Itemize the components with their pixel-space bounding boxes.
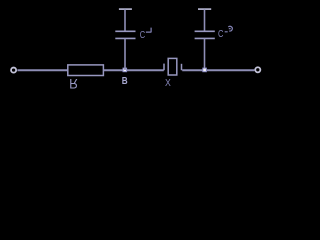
svg-text:C: C xyxy=(140,30,146,41)
svg-text:R: R xyxy=(69,75,78,91)
label C1 xyxy=(140,30,146,41)
wire xyxy=(104,69,164,71)
wire xyxy=(198,8,211,10)
node B xyxy=(123,68,128,73)
wire xyxy=(182,69,204,71)
terminal T2 xyxy=(255,67,260,72)
terminal T1 xyxy=(11,68,16,73)
svg-text:C: C xyxy=(218,29,224,40)
node xyxy=(202,68,207,73)
wire xyxy=(17,69,67,71)
crystal X xyxy=(164,58,182,75)
capacitor C2 xyxy=(195,31,215,38)
wire xyxy=(124,9,126,31)
wire xyxy=(124,38,126,70)
resistor R xyxy=(68,65,104,76)
capacitor C1 xyxy=(115,31,135,38)
label C2 xyxy=(218,29,224,40)
svg-text:X: X xyxy=(165,78,171,89)
wire xyxy=(119,8,132,10)
wire xyxy=(207,69,255,71)
svg-text:B: B xyxy=(122,76,128,87)
wire xyxy=(204,9,206,31)
wire xyxy=(204,38,206,70)
